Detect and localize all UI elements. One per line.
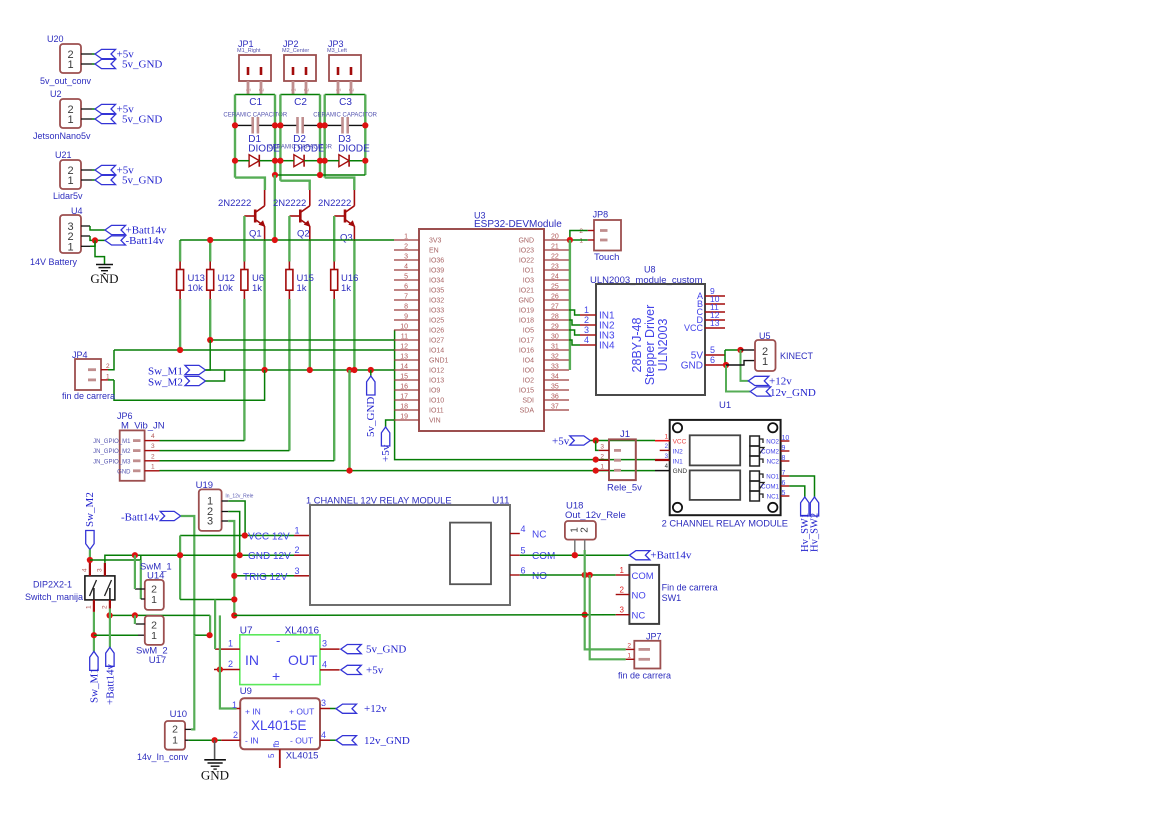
wire NC net jog [209,615,211,635]
svg-text:1k: 1k [252,283,262,294]
svg-text:Q2: Q2 [297,229,310,240]
wire GND to 12v_GND flag [726,365,750,392]
node junction [92,237,98,243]
wire +5v flag to VIN [386,420,394,427]
wire loop bottom jog [325,178,355,190]
node junction [582,612,588,618]
wire 5v_GND flag stem [370,370,372,376]
node junction [272,172,278,178]
svg-text:+Batt14v: +Batt14v [104,663,116,705]
svg-text:COM: COM [532,551,555,562]
supply flag +5v [95,49,116,58]
svg-text:2: 2 [579,228,583,235]
svg-text:37: 37 [551,404,559,411]
wire IO17 to IN4 [569,340,580,345]
svg-text:Out_12v_Rele: Out_12v_Rele [565,510,626,521]
node junction [207,337,213,343]
svg-text:Stepper Driver: Stepper Driver [643,305,657,386]
svg-text:14: 14 [400,364,408,371]
node junction [362,122,368,128]
svg-text:- OUT: - OUT [290,735,313,745]
svg-text:1: 1 [67,241,73,253]
pin 33 IO0 [544,369,569,371]
svg-text:IO3: IO3 [523,278,534,285]
pin 11 IO27 [394,339,419,341]
ground symbol 2 [214,740,216,759]
pin 3 [320,648,340,650]
wire capacitor row [235,124,252,126]
svg-text:2: 2 [151,453,155,460]
svg-text:+5v: +5v [366,664,384,676]
node junction [232,122,238,128]
wire loop top [280,94,320,96]
svg-text:GND: GND [681,361,703,372]
pin 22 IO22 [544,259,569,261]
supply flag -Batt14v [160,511,181,520]
wire IO26 to J1 pin2 net [395,330,655,460]
wire JP8 pin1 / GND junction [570,239,588,241]
wire resistor bottom [333,299,335,461]
wire U17 pin2 to NC net [134,615,136,624]
wire vertical from tie to 3V3 line [274,175,276,240]
pin 36 SDI [544,399,569,401]
wire TRIG 12V row [234,575,294,577]
pin 9 IO25 [394,319,419,321]
pin 4 IN4 [580,344,596,346]
node junction [132,552,138,558]
wire IO19 to IN1 [569,310,580,315]
svg-text:Fin de carrera: Fin de carrera [662,583,718,593]
node junction [277,158,283,164]
pin 34 IO2 [544,379,569,381]
svg-text:1k: 1k [341,283,351,294]
svg-text:1: 1 [584,305,589,315]
wire to ground [95,240,105,264]
wire GND to U5 pin1 [726,361,755,365]
svg-text:IO0: IO0 [523,368,534,375]
svg-text:15: 15 [400,374,408,381]
node junction [272,122,278,128]
pin 18 IO11 [394,409,419,411]
svg-text:30: 30 [551,334,559,341]
svg-text:+: + [272,668,280,684]
wire IO18 to IN2 [569,320,580,325]
svg-text:EN: EN [429,248,439,255]
terminal COM1 [750,481,760,491]
pin 10 IO26 [394,329,419,331]
svg-text:Sw_M1: Sw_M1 [88,668,100,703]
svg-text:8: 8 [404,304,408,311]
wire rail to U10 pin2 [191,635,194,729]
svg-text:+5v: +5v [380,444,392,462]
supply flag 12v_GND [336,736,357,745]
node junction [593,468,599,474]
node junction [362,158,368,164]
svg-text:5v_GND: 5v_GND [366,644,406,656]
svg-text:SW1: SW1 [662,593,682,603]
supply flag 5v_GND [95,175,116,184]
svg-text:+ OUT: + OUT [289,707,314,717]
wire loop right [319,95,321,176]
svg-text:U20: U20 [47,34,64,44]
svg-text:2N2222: 2N2222 [218,198,251,209]
svg-text:Q3: Q3 [340,233,353,244]
svg-text:C1: C1 [249,97,262,108]
wire GND-IO0 vertical [569,240,571,370]
pin 16 IO9 [394,389,419,391]
wire COM1 to Hv_SW1 [789,486,804,497]
wire JP6 pin3 to U15 [160,450,290,452]
svg-text:29: 29 [551,324,559,331]
svg-text:TRIG 12V: TRIG 12V [243,572,288,583]
svg-text:3: 3 [151,443,155,450]
svg-text:10k: 10k [218,283,234,294]
wire U18 pin2 down to JP7 pin2 [585,550,626,649]
pin 28 IO18 [544,319,569,321]
svg-text:Switch_manija: Switch_manija [25,592,83,602]
pin 7 IO32 [394,299,419,301]
svg-text:JN_GPIO_M1: JN_GPIO_M1 [93,439,131,445]
svg-text:32: 32 [551,354,559,361]
pin 35 IO15 [544,389,569,391]
svg-text:1: 1 [67,114,73,126]
svg-text:+12v: +12v [364,703,387,715]
svg-text:1: 1 [151,594,157,606]
pin 21 IO23 [544,249,569,251]
connector U21 [60,160,81,189]
svg-text:3: 3 [620,606,625,615]
svg-text:28: 28 [551,314,559,321]
svg-text:NO2: NO2 [766,439,779,446]
svg-text:CERAMIC CAPACITOR: CERAMIC CAPACITOR [223,113,287,119]
emitter pin [264,226,266,241]
svg-text:IO27: IO27 [429,338,444,345]
svg-text:3: 3 [322,639,327,649]
svg-text:1: 1 [620,566,625,575]
wire loop bottom jog [235,178,265,190]
svg-text:IO15: IO15 [519,388,534,395]
switch contacts [93,588,95,600]
svg-text:IO34: IO34 [429,278,444,285]
svg-text:2 CHANNEL RELAY MODULE: 2 CHANNEL RELAY MODULE [662,519,788,529]
svg-text:U2: U2 [50,89,62,99]
wire [81,179,92,181]
mounting hole [768,423,777,432]
svg-text:21: 21 [551,244,559,251]
pin 5 COM [510,554,520,556]
wire diode row [235,160,249,162]
resistor U15 1k [288,216,290,262]
node junction [212,737,218,743]
wire loop top [325,94,366,96]
wire row to U17 pin1 [94,634,138,636]
svg-text:5v_GND: 5v_GND [122,59,162,71]
wire [81,63,92,65]
node junction [346,468,352,474]
svg-text:18: 18 [400,404,408,411]
pin 32 IO4 [544,359,569,361]
relay K1 body [690,470,741,500]
node junction [572,552,578,558]
pin 31 IO16 [544,349,569,351]
pin 14 IO12 [394,369,419,371]
wire 5V to U5 [724,350,726,365]
wire JP8 pin2 [570,231,588,241]
wire U10 pin1 to U9 pin2 [189,739,221,741]
pin 15 IO13 [394,379,419,381]
svg-text:4: 4 [322,659,327,669]
svg-text:4: 4 [584,335,589,345]
wire resistor bottom [288,299,290,451]
svg-text:IO12: IO12 [429,368,444,375]
svg-text:IO11: IO11 [429,408,444,415]
svg-text:GND1: GND1 [429,358,449,365]
pin 30 IO17 [544,339,569,341]
svg-text:1: 1 [579,238,583,245]
mounting hole [768,503,777,512]
svg-text:13: 13 [710,318,720,328]
svg-text:-Batt14v: -Batt14v [126,235,165,247]
wire U19 pin1 to VCC row [228,501,245,536]
svg-text:2: 2 [620,586,625,595]
pin 6 GND [705,364,726,366]
svg-text:IO22: IO22 [519,258,534,265]
wire GND net JP6 pin1 to U1 [160,470,656,472]
svg-text:1: 1 [151,463,155,470]
svg-text:IO33: IO33 [429,308,444,315]
node junction [217,666,223,672]
svg-text:COM: COM [632,571,654,582]
svg-text:IO9: IO9 [429,388,440,395]
wire resistor bottom [179,299,181,350]
pin 1 [215,648,240,650]
wire pin1 to GND [90,240,95,246]
node junction [593,457,599,463]
pin 20 GND [544,239,569,241]
svg-text:ULN2003: ULN2003 [656,319,670,372]
svg-text:1: 1 [67,59,73,71]
supply flag +5v [570,436,591,445]
wire COM to +Batt14v [520,554,630,556]
pin 10 B [705,303,725,305]
supply flag +5v [381,427,389,446]
pin 5 IO34 [394,279,419,281]
svg-text:IO23: IO23 [519,248,534,255]
svg-text:IO26: IO26 [429,328,444,335]
supply flag +5v [341,665,362,674]
wire pin3 to +Batt14v [90,226,105,230]
svg-text:fin de carrera: fin de carrera [62,391,115,401]
svg-text:IO14: IO14 [429,348,444,355]
wire gnd drop x349.5 [348,370,350,471]
svg-text:1: 1 [600,463,604,470]
svg-text:-Batt14v: -Batt14v [121,512,160,524]
svg-text:XL4015E: XL4015E [251,718,307,733]
svg-text:J1: J1 [620,429,630,440]
terminal NO2 [750,436,760,446]
emitter pin [309,226,311,241]
svg-text:IO4: IO4 [523,358,534,365]
pin 2 EN [394,249,419,251]
wire U14 pin2 to GND row [134,555,136,589]
svg-text:+5v: +5v [552,436,570,448]
svg-text:3: 3 [600,443,604,450]
svg-text:31: 31 [551,344,559,351]
svg-text:GND 12V: GND 12V [248,551,291,562]
svg-text:13: 13 [400,354,408,361]
svg-text:5: 5 [267,753,276,758]
node junction [231,612,237,618]
svg-text:5: 5 [710,345,715,355]
wire NO1 to Hv_SW2 [789,476,814,497]
svg-text:3: 3 [97,568,104,572]
svg-text:2: 2 [580,527,591,533]
pin 1 IN1 [580,314,596,316]
svg-text:IO18: IO18 [519,318,534,325]
wire Sw_M2 to emitter net [206,370,225,381]
node junction [272,158,278,164]
collector pin [353,190,355,206]
resistor U13 10k [179,240,181,262]
svg-text:U10: U10 [170,709,187,720]
svg-text:GND: GND [201,768,229,783]
pin 12 D [705,319,725,321]
wire pin2 to -Batt14v [90,236,105,240]
wire NC net y615 [110,614,211,616]
wire capacitor row [280,124,296,126]
pin 24 IO3 [544,279,569,281]
node junction [723,362,729,368]
wire [81,108,92,110]
pin 2 IN2 [580,324,596,326]
svg-text:2: 2 [600,453,604,460]
wire U14 pin1 vertical [140,560,142,599]
wire [81,169,92,171]
supply flag Hv_SW1 [801,497,809,516]
wire U7 pin1 up [214,600,216,650]
svg-text:27: 27 [551,304,559,311]
terminal NO1 [750,471,760,481]
pin 25 IO21 [544,289,569,291]
pin 4 IO39 [394,269,419,271]
pin 17 IO10 [394,399,419,401]
wire Sw_M1 to IO27 net [206,340,211,370]
pin 6 NO [510,574,520,576]
supply flag Sw_M1 [185,365,206,374]
node junction [87,557,93,563]
pin 27 IO19 [544,309,569,311]
wire +5v to VCC [590,440,655,442]
connector U2 [60,99,81,128]
svg-text:- IN: - IN [245,735,259,745]
svg-text:9: 9 [404,314,408,321]
wire U7 pin2 to U9 pin1 [220,670,237,709]
pin 11 C [705,311,725,313]
svg-text:Hv_SW2: Hv_SW2 [810,513,821,552]
svg-text:NO: NO [532,571,547,582]
wire VCC 12V row [180,535,294,537]
wire rail to dot [194,634,209,636]
pin 4 [89,563,91,576]
svg-text:5v_GND: 5v_GND [365,397,377,437]
svg-text:U21: U21 [55,150,72,160]
pin 13 GND1 [394,359,419,361]
wire loop bottom jog [280,181,309,190]
svg-text:DIP2X2-1: DIP2X2-1 [33,580,72,590]
svg-text:GND: GND [518,298,534,305]
svg-text:IO36: IO36 [429,258,444,265]
node junction [593,437,599,443]
svg-text:NO: NO [632,590,646,601]
wire resistor bottom [209,299,211,340]
svg-text:GND: GND [117,469,131,475]
svg-text:6: 6 [404,284,408,291]
svg-text:+12v: +12v [769,376,792,388]
svg-text:fb: fb [272,740,281,747]
svg-text:Rele_5v: Rele_5v [607,483,642,494]
wire Sw_M2 to pin4 [89,550,91,563]
svg-text:34: 34 [551,374,559,381]
wire switch pin2 down [109,609,111,648]
supply flag -Batt14v [105,236,126,245]
supply flag +5v [95,104,116,113]
svg-text:4: 4 [321,730,326,740]
relay K2 body [690,435,741,465]
svg-text:4: 4 [521,524,526,534]
pin 12 IO14 [394,349,419,351]
node junction [307,367,313,373]
svg-text:1: 1 [404,234,408,241]
wire resistor bottom [243,299,245,441]
svg-text:4: 4 [151,433,155,440]
pin 19 VIN [394,419,419,421]
svg-text:COM1: COM1 [761,484,779,491]
svg-text:M2_Center: M2_Center [282,48,309,54]
svg-text:KINECT: KINECT [780,351,814,361]
svg-text:IN4: IN4 [599,341,615,352]
supply flag +12v [748,376,769,385]
svg-text:IO1: IO1 [523,268,534,275]
svg-text:GND: GND [673,468,688,475]
wire x180 bottom jog [180,599,234,601]
svg-text:2: 2 [404,244,408,251]
wire [81,118,92,120]
svg-text:12: 12 [400,344,408,351]
node junction [317,172,323,178]
svg-text:JN_GPIO_M3: JN_GPIO_M3 [93,459,131,465]
wire capacitor row [325,124,342,126]
supply flag 5v_GND [341,645,362,654]
wire loop left [279,95,281,181]
node junction [322,158,328,164]
svg-text:NC1: NC1 [767,494,780,501]
relay body [450,523,491,585]
svg-text:4: 4 [404,264,408,271]
svg-text:3: 3 [207,516,213,528]
wire JP4 pin1 net y400 [114,370,265,400]
svg-text:20: 20 [551,234,559,241]
supply flag +12v [336,704,357,713]
pin 2 [214,669,240,671]
svg-text:1: 1 [86,605,93,609]
svg-text:NC2: NC2 [767,459,780,466]
connector U20 [60,44,81,73]
node junction [277,122,283,128]
pin 26 GND [544,299,569,301]
svg-text:NC: NC [532,530,546,541]
supply flag 12v_GND [750,387,771,396]
svg-text:35: 35 [551,384,559,391]
